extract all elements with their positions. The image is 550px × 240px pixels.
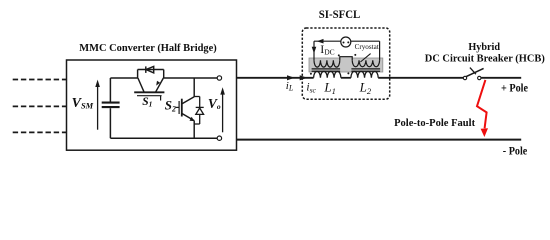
V_SM voltage arrow [95, 80, 100, 130]
DC bias loop left wire [313, 41, 315, 60]
V_o voltage arrow [220, 87, 225, 132]
IGBT S1 with antiparallel diode [134, 66, 164, 100]
svg-text:S2: S2 [165, 98, 176, 114]
top external line (positive pole) [237, 77, 314, 79]
S2 collector wire [193, 78, 195, 97]
DC bias loop top wire left [314, 40, 341, 42]
MMC converter box [67, 60, 237, 150]
I_DC down arrow [312, 47, 317, 54]
svg-text:iL: iL [286, 80, 294, 93]
wire between L1 and L2 [341, 77, 351, 79]
cryostat pointer line [360, 54, 370, 62]
bias winding link over plateau [340, 57, 352, 61]
wire after L2 to breaker [378, 77, 463, 79]
DC source dot left [343, 42, 345, 44]
fault lightning bolt [477, 80, 487, 128]
svg-text:Hybrid: Hybrid [468, 41, 500, 53]
svg-text:- Pole: - Pole [503, 143, 528, 157]
svg-text:VSM: VSM [72, 96, 94, 111]
DC source circle [341, 37, 351, 47]
output terminal node top [217, 76, 221, 80]
cryostat gray box [309, 58, 383, 72]
breaker contact right [478, 76, 481, 79]
IGBT S2 [176, 97, 195, 138]
inductor L2 [351, 71, 378, 77]
polarity dot L2 [347, 72, 349, 74]
output terminal node bottom [217, 136, 221, 140]
polarity dot L1 [310, 73, 312, 75]
svg-text:MMC Converter (Half Bridge): MMC Converter (Half Bridge) [79, 42, 217, 54]
capacitor C_SM [102, 78, 120, 138]
inductor L1 [314, 71, 341, 77]
svg-text:Cryostat: Cryostat [355, 42, 380, 51]
svg-text:Vo: Vo [208, 96, 221, 111]
I_DC direction arrow on top wire [317, 39, 324, 44]
core right (double bar) [351, 69, 380, 71]
i_L current arrow [287, 75, 295, 80]
core left (double bar) [312, 69, 341, 71]
breaker blade [466, 68, 483, 76]
fault bolt arrowhead [481, 128, 488, 137]
svg-text:IDC: IDC [320, 42, 334, 56]
breaker cross slash [470, 68, 476, 75]
svg-text:+ Pole: + Pole [501, 81, 529, 95]
DC source dot right [347, 41, 349, 43]
external line after breaker [481, 77, 521, 79]
polarity dot upper winding 1 [338, 54, 340, 56]
upper bias winding 2 [352, 60, 379, 66]
S2 antiparallel diode [194, 97, 204, 125]
SFCL dashed box [302, 28, 389, 99]
dashed input wire 3 [13, 131, 67, 133]
DC bias loop right wire [379, 41, 381, 60]
polarity dot upper winding 2 [354, 54, 356, 56]
bottom external line (negative pole) [237, 139, 521, 141]
svg-text:S1: S1 [142, 96, 152, 109]
top internal wire [110, 77, 137, 79]
svg-text:L2: L2 [359, 80, 372, 96]
cryostat gray plateau [341, 56, 353, 59]
svg-text:isc: isc [306, 82, 316, 95]
svg-text:SI-SFCL: SI-SFCL [319, 7, 361, 21]
top internal wire right of S1 [164, 77, 218, 79]
i_sc current arrow [300, 75, 308, 80]
svg-text:DC Circuit Breaker (HCB): DC Circuit Breaker (HCB) [425, 53, 545, 65]
svg-text:L1: L1 [323, 80, 335, 96]
DC bias loop top wire right [351, 40, 380, 42]
bottom internal wire [110, 137, 217, 139]
dashed input wire 1 [13, 79, 67, 81]
upper bias winding 1 [314, 60, 340, 67]
svg-text:Pole-to-Pole Fault: Pole-to-Pole Fault [394, 117, 475, 129]
breaker contact left [463, 76, 466, 79]
dashed input wire 2 [13, 105, 67, 107]
